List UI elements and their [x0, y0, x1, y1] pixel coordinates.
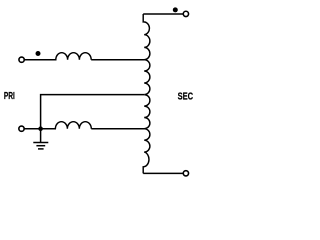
ground	[33, 129, 48, 149]
svg-text:PRI: PRI	[4, 91, 15, 102]
inductor L3 (secondary winding)	[143, 14, 150, 173]
wire	[25, 128, 57, 130]
wire	[91, 59, 144, 61]
wire (secondary top lead)	[143, 13, 183, 15]
wire	[91, 128, 144, 130]
wire (secondary bottom lead)	[143, 172, 183, 174]
terminal J2 (bottom primary, open circle)	[19, 126, 24, 131]
wire (center-tap riser)	[41, 95, 145, 129]
inductor L1 (primary winding, top)	[56, 53, 91, 60]
terminal J3 (top secondary, open circle)	[183, 11, 188, 16]
polarity dot (secondary)	[173, 7, 178, 12]
junction dot	[38, 126, 43, 131]
terminal J4 (bottom secondary, open circle)	[183, 171, 188, 176]
polarity dot (primary)	[36, 51, 41, 56]
svg-text:SEC: SEC	[178, 91, 194, 102]
terminal J1 (top primary, open circle)	[19, 57, 24, 62]
inductor L2 (primary winding, bottom)	[55, 122, 91, 129]
wire	[25, 59, 57, 61]
